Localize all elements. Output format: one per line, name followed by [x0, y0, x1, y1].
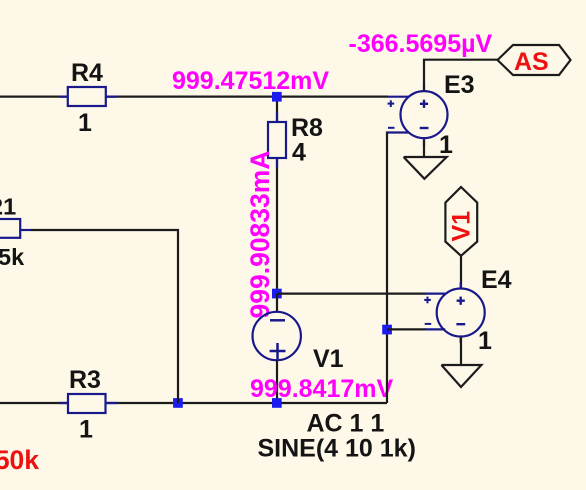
- svg-text:V1: V1: [448, 211, 476, 242]
- wire R8 vertical branch: [276, 97, 278, 294]
- svg-text:-366.5695µV: -366.5695µV: [349, 30, 493, 58]
- resistor R4: [59, 59, 117, 137]
- wire V1 top pin: [276, 294, 278, 313]
- junction top of R8: [272, 92, 282, 102]
- resistor R8: [268, 112, 323, 168]
- junction bottom wire / V1: [272, 398, 282, 408]
- svg-text:21: 21: [0, 194, 16, 220]
- op source E3 (VCVS): [388, 71, 475, 159]
- wire left branch (R21 to bottom net): [31, 230, 178, 403]
- svg-text:1: 1: [79, 416, 93, 444]
- resistor R21 (partial at edge): [0, 194, 31, 271]
- wire E3 output to AS flag: [424, 60, 498, 91]
- svg-text:1: 1: [78, 109, 92, 137]
- svg-text:AS: AS: [514, 48, 549, 76]
- net flag V1: [445, 187, 477, 256]
- wire V1 bottom pin: [276, 360, 278, 403]
- wire to E4 minus control: [387, 328, 426, 330]
- svg-text:1: 1: [478, 327, 492, 355]
- junction bottom of R8 / V1 top: [272, 289, 282, 299]
- svg-text:SINE(4 10 1k): SINE(4 10 1k): [258, 435, 416, 463]
- resistor R3: [59, 366, 117, 444]
- svg-text:1: 1: [439, 131, 453, 159]
- svg-text:R4: R4: [71, 59, 103, 87]
- svg-text:E4: E4: [481, 266, 512, 294]
- svg-text:999.90833mA: 999.90833mA: [245, 151, 275, 319]
- svg-text:V1: V1: [313, 345, 344, 373]
- junction E4 minus branch: [382, 325, 392, 335]
- svg-text:R3: R3: [69, 366, 101, 394]
- svg-text:4: 4: [292, 139, 306, 167]
- op source E4 (VCVS): [424, 266, 511, 355]
- wire to E4 plus control: [277, 293, 426, 295]
- svg-text:50k: 50k: [0, 445, 39, 475]
- wire top net (left edge to E3 + control pin): [0, 95, 388, 97]
- wire E3 minus control to bottom net: [387, 133, 388, 404]
- junction bottom wire / left branch: [173, 398, 183, 408]
- ground under E4: [441, 337, 481, 387]
- svg-text:999.47512mV: 999.47512mV: [172, 67, 329, 95]
- svg-text:AC 1 1: AC 1 1: [307, 410, 385, 438]
- svg-text:999.8417mV: 999.8417mV: [250, 375, 394, 403]
- svg-text:5k: 5k: [0, 244, 25, 270]
- net flag AS: [498, 45, 571, 76]
- wire V1 flag to E4: [460, 256, 462, 289]
- wire bottom net: [0, 402, 387, 404]
- svg-text:E3: E3: [444, 71, 475, 99]
- voltage source V1: [253, 312, 344, 373]
- ground under E3: [404, 140, 447, 179]
